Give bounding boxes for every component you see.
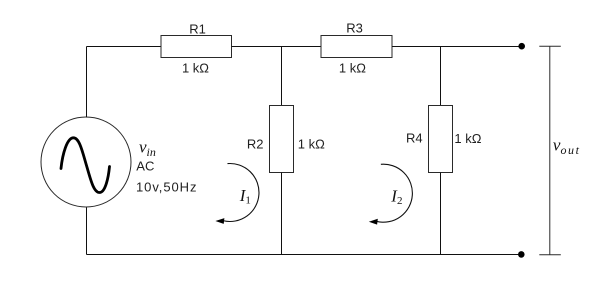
wire: R3 right to output terminal (through node above R4) — [392, 46, 519, 48]
svg-text:R4: R4 — [406, 131, 423, 146]
label v_out — [553, 135, 580, 157]
label R4 — [406, 131, 423, 146]
svg-text:vout: vout — [553, 135, 580, 157]
svg-text:I1: I1 — [239, 186, 251, 207]
wire: node to R4 top — [440, 47, 442, 106]
terminal dot top — [518, 43, 525, 50]
svg-text:1 kΩ: 1 kΩ — [182, 61, 209, 76]
label I2 — [390, 187, 402, 208]
svg-text:1 kΩ: 1 kΩ — [339, 61, 366, 76]
resistor R4 — [429, 106, 453, 173]
vout bracket — [539, 46, 561, 255]
wire: top rail to R1 left — [87, 46, 162, 48]
wire: R2 bottom to bottom rail — [281, 173, 283, 255]
wire: R1 right to R3 left (through node above R2) — [232, 46, 322, 48]
wire: R4 bottom to bottom rail — [440, 173, 442, 255]
svg-text:1 kΩ: 1 kΩ — [298, 137, 325, 152]
AC source V1 — [41, 117, 131, 207]
value 1 kOhm of R3 — [339, 61, 366, 76]
svg-text:1 kΩ: 1 kΩ — [454, 131, 481, 146]
terminal dot bottom — [518, 251, 525, 258]
resistor R1 — [161, 36, 232, 58]
svg-text:10v,50Hz: 10v,50Hz — [136, 180, 197, 195]
value 1 kOhm of R1 — [182, 61, 209, 76]
resistor R2 — [270, 106, 294, 173]
svg-text:AC: AC — [136, 159, 154, 174]
value 1 kOhm of R4 — [454, 131, 481, 146]
label I1 — [239, 186, 251, 207]
svg-text:R3: R3 — [346, 21, 363, 36]
label AC — [136, 159, 154, 174]
label v_in — [139, 138, 156, 160]
svg-text:I2: I2 — [390, 187, 402, 208]
svg-text:R2: R2 — [247, 137, 264, 152]
value 1 kOhm of R2 — [298, 137, 325, 152]
label R1 — [189, 22, 206, 37]
wire: source bottom to bottom rail — [86, 208, 88, 255]
wire: source top to top rail — [86, 47, 88, 118]
wire: node to R2 top — [281, 47, 283, 106]
mesh current arrow I1 — [215, 164, 259, 224]
svg-text:vin: vin — [139, 138, 156, 160]
label R2 — [247, 137, 264, 152]
svg-text:R1: R1 — [189, 22, 206, 37]
resistor R3 — [321, 36, 392, 58]
mesh current arrow I2 — [369, 164, 413, 224]
wire: bottom rail — [87, 254, 519, 256]
label R3 — [346, 21, 363, 36]
label 10v,50Hz — [136, 180, 197, 195]
